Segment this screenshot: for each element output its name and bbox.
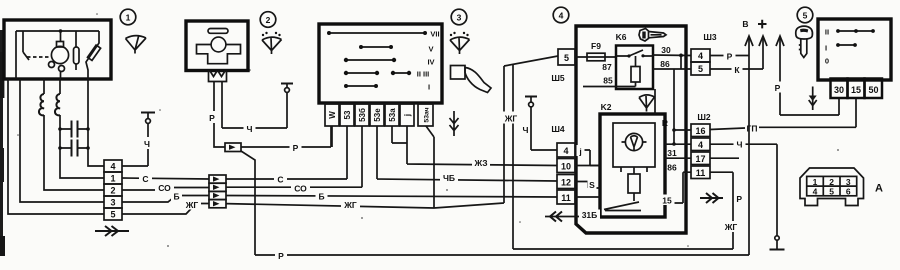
svg-text:1: 1 [110,174,115,184]
arrowhead B [745,36,753,46]
circled 4 designator [553,7,569,23]
label S left [139,173,152,184]
svg-text:V: V [428,45,433,54]
label ZhG vertical pair [502,112,521,124]
switch terminal 53b [355,104,369,126]
svg-text:F9: F9 [591,41,601,51]
wire P Sh3-4 to B arrow [710,55,749,57]
svg-text:12: 12 [561,177,571,187]
label j [577,145,585,156]
svg-text:5: 5 [110,210,115,220]
wire P bullet down branch [241,151,255,255]
washer lever icon [451,66,466,80]
svg-text:4: 4 [559,11,564,21]
connector Sh4 pin 12 [557,175,575,189]
wire P ignition 30 [780,38,839,115]
switch terminal W [325,104,339,126]
svg-text:ЖГ: ЖГ [504,114,518,124]
body terminal symbol [141,112,155,114]
node 30 [679,54,683,58]
harness continuation arrow right lower [700,193,723,203]
wire to Sh2-16 [674,129,691,131]
svg-text:2: 2 [266,15,271,25]
svg-text:II III: II III [417,70,430,79]
svg-text:0: 0 [825,57,829,66]
circled 1 designator [120,9,136,25]
svg-text:Ч: Ч [144,139,150,149]
switch terminal 53e [370,104,384,126]
label P bottom [275,250,287,261]
svg-text:1: 1 [126,13,131,23]
label P to W [290,142,302,153]
connector Sh2 pin 4 [691,138,710,151]
svg-text:Ш2: Ш2 [697,112,711,122]
wire S Sh4-12 to K2 [575,182,600,189]
svg-text:K2: K2 [601,102,612,112]
commutator stubs [75,31,77,70]
svg-text:85: 85 [603,76,613,86]
svg-text:СО: СО [158,183,171,193]
ignition terminal 15 [848,79,865,99]
svg-text:I: I [825,44,827,53]
label CO mid [291,182,310,193]
relay K6 coil [631,67,640,83]
wire Sh5 to K6 [576,56,616,58]
terminal symbol Ch feed [525,96,537,98]
wire j Sh4-4 to K2 [575,150,600,166]
svg-text:Р: Р [278,251,284,261]
choke coil L2 wire to pin1 [60,79,104,178]
wire Ch to Sh4-4 [531,97,557,151]
relay K2 motor circle [625,133,642,150]
connector A grid [807,176,857,195]
connector Sh2 pin 11 [691,166,710,179]
key icon in block [639,29,649,42]
wire CO cell2 to 53b [226,126,362,187]
svg-text:ЖГ: ЖГ [724,222,738,232]
svg-text:ЖЗ: ЖЗ [473,158,487,168]
svg-text:Р: Р [727,52,733,62]
commutator capsule [74,47,80,64]
relay K2 box [600,114,665,217]
node 31 [672,142,676,146]
svg-text:4: 4 [563,146,568,156]
svg-text:ЧБ: ЧБ [443,173,455,183]
svg-text:87: 87 [602,62,612,72]
connector Sh5 pin 5 [558,49,575,65]
choke coil L1 wire to pin2 [44,79,104,190]
svg-text:50: 50 [868,85,878,95]
connector Sh4 pin 11 [557,190,575,204]
wire P bullet to switch W [241,126,331,147]
ignition contact row 2 [838,44,855,46]
svg-text:S: S [589,180,595,190]
svg-text:31: 31 [667,148,677,158]
connector Sh2 pin 17 [691,152,710,165]
capacitor C2 leads [60,147,88,149]
connector Sh3 pin 5 [691,62,710,75]
label P ignition [772,82,783,93]
relay K2 coil [633,167,635,174]
svg-text:Ч: Ч [247,124,253,134]
node motor supply [59,29,63,33]
svg-text:Ш3: Ш3 [703,32,717,42]
svg-text:31Б: 31Б [582,210,598,220]
motor connector pin 1 [104,172,122,184]
motor terminal tab [57,42,64,48]
wire Ch Sh2-4 to ground [710,144,777,236]
wire Ch to body terminal [122,165,148,167]
washer pump motor circle [211,37,226,52]
svg-text:Р: Р [775,83,781,93]
wire motor to pin5 [8,79,104,214]
svg-text:j: j [403,114,412,117]
capacitor C2 plates [72,140,78,157]
ignition contact row 1 [838,30,873,32]
svg-text:Р: Р [209,113,215,123]
label Ch right [734,138,746,149]
circled 5 designator [797,7,813,23]
svg-text:С: С [277,175,283,185]
relay K2 inner stubs [621,167,647,172]
svg-text:ЖГ: ЖГ [343,200,357,210]
capacitor C1 leads [60,128,88,130]
svg-text:53б: 53б [358,108,367,122]
harness continuation arrow down right [812,87,814,111]
svg-text:5: 5 [698,64,703,74]
wire bus P right riser to B arrow [748,38,750,255]
svg-text:5: 5 [564,53,569,63]
svg-text:5: 5 [829,186,834,196]
motor brush bottom [59,66,65,72]
switch row V [361,46,391,48]
washer pump coupling teeth [209,71,227,82]
svg-text:86: 86 [660,59,670,69]
label P pump [207,111,218,123]
svg-text:Б: Б [318,192,324,202]
wire 31B with left arrow [545,216,600,218]
label ZhZ [472,157,490,168]
svg-text:Ш4: Ш4 [551,124,565,134]
switch row I [346,85,376,87]
svg-text:3: 3 [457,13,462,23]
wire Sh4-11 to K2 [575,196,600,198]
switch terminal j [400,104,414,126]
svg-text:К: К [734,65,740,75]
switch row VII [329,32,425,34]
motor M1 internal top bus [16,30,99,32]
svg-text:Ч: Ч [737,140,743,150]
circled 3 designator [451,9,467,25]
motor connector pin 5 [104,208,122,220]
svg-text:53ач: 53ач [423,107,430,122]
wire P pump to bullet [214,82,225,148]
svg-text:11: 11 [561,193,571,203]
svg-text:Р: Р [736,194,742,204]
paper speckles [17,13,839,247]
wire C cell1 to 53 [226,126,347,179]
svg-text:IV: IV [427,58,434,67]
wiper motor unit 1 box [4,20,111,79]
svg-text:В: В [742,19,748,29]
wire ZhG second drop [513,64,733,249]
svg-text:K6: K6 [616,32,627,42]
switch actuation dashed link [27,56,51,58]
wire 85 [583,82,636,87]
motor connector pin 3 [104,196,122,208]
relay K6 box [616,46,653,90]
switch terminal 53a [385,104,399,126]
label Ch pump [244,123,256,134]
switch terminal 53 [340,104,354,126]
inline connector cell 4 [209,200,226,208]
label Ch motor [142,137,153,149]
label K [732,64,743,75]
washer wiper icon 2 [262,37,282,54]
label ZhG right [722,221,741,232]
svg-text:30: 30 [834,85,844,95]
svg-text:53а: 53а [388,108,397,122]
terminal symbol plus feed [281,83,293,85]
choke coil L1 [39,94,44,115]
label SO left [155,182,174,193]
ground symbol [776,240,778,248]
arrowhead plus [759,36,767,46]
svg-text:W: W [328,111,337,119]
svg-text:15: 15 [851,85,861,95]
svg-text:ГП: ГП [747,124,758,134]
svg-text:Ч: Ч [523,125,529,135]
wire ChB 53e to Sh4-12 [377,126,557,181]
node cap junctions [58,127,62,131]
connector A outline [800,168,864,206]
svg-text:ЖГ: ЖГ [185,200,199,210]
wiper switch 3 box [319,24,442,103]
wire 86 to Sh2-17 [665,157,691,159]
washer wiper icon 3 [450,37,470,54]
wire 53 down [331,126,333,147]
wire Sh2-17 stub [710,157,739,159]
switch row IV [346,59,394,61]
mounting block 4 outline [576,26,686,233]
circled 2 designator [260,12,276,28]
resistor lead [86,31,99,79]
svg-text:Б: Б [173,192,179,202]
plus symbol [758,20,767,29]
label B left [171,190,182,201]
svg-text:6: 6 [846,186,851,196]
svg-text:VII: VII [430,30,439,39]
capacitor C1 plates [72,121,78,138]
wire resistor to pin4 [88,79,104,166]
wire B row3 [122,196,209,203]
harness continuation arrow right [95,226,129,236]
wire K6 to K2 link [654,89,656,114]
label 31B [579,210,600,221]
label 15 [660,195,675,206]
svg-text:С: С [142,174,148,184]
wire motor to pin3 [20,79,104,202]
svg-text:15: 15 [662,196,672,206]
svg-text:86: 86 [667,163,677,173]
wire ZhZ j to Sh4-10 [407,126,557,166]
key icon 5 [796,26,813,39]
wire 53a drop and bridge [392,126,407,143]
svg-text:A: A [875,183,883,195]
inline connector cell 1 [209,175,226,183]
connector Sh4 pin 4 [557,143,575,157]
svg-text:Ш5: Ш5 [551,73,565,83]
svg-text:10: 10 [561,161,571,171]
connector Sh3 pin 4 [691,49,710,62]
svg-text:4: 4 [110,162,115,172]
connector Sh2 pin 16 [691,124,710,137]
svg-text:R: R [662,118,668,128]
ignition terminal 50 [865,79,883,99]
scan edge artifact left [0,30,3,256]
motor connector pin 2 [104,184,122,196]
ignition switch 5 box [818,19,891,80]
wire 15 to Sh2-11 [665,172,691,203]
wire SO row2 [122,188,209,191]
inline connector cell 3 [209,191,226,199]
thermal switch contact [23,52,29,60]
wiper icon 1 [126,36,147,54]
wire B cell3 to Sh4-11 [226,196,557,198]
svg-text:11: 11 [696,168,706,178]
label P right [724,50,736,61]
svg-text:4: 4 [813,186,818,196]
label C mid [274,173,287,184]
wire 30 to 86 link [680,55,682,69]
svg-text:30: 30 [661,45,671,55]
svg-text:5: 5 [803,11,808,21]
svg-text:53: 53 [343,110,352,119]
relay K2 inner body [613,123,655,167]
motor connector pin 4 [104,160,122,172]
wire Sh4-10 to K2 [575,165,600,167]
node R to 16 [672,128,676,132]
fuse F9 [587,53,605,61]
washer pump top bar [208,29,228,34]
harness continuation arrow down mid [450,111,459,136]
label S [588,180,597,190]
wire GP Sh2-16 to ignition 15 [710,98,856,130]
wiper icon in block [639,95,655,112]
motor armature M1 [51,46,68,63]
svg-text:4: 4 [698,140,703,150]
wire 31 to Sh2-4 [665,143,691,145]
label ZhG mid [341,199,360,210]
switch terminal 53ach [418,104,433,126]
switch row II III [346,72,409,74]
label ZhG left [183,199,201,210]
wire Ch pump to terminal [222,82,287,129]
wire 53ach diagonal drop [426,126,434,208]
wire R vertical [673,69,675,144]
wire ZhG row5 [122,204,209,215]
motor brush left [49,62,55,68]
wire K Sh3-5 to plus arrow [710,38,763,69]
label B mid [316,190,328,201]
wire P bottom bus [255,254,749,256]
svg-text:I: I [428,83,430,92]
inline connector cell 2 [209,183,226,191]
svg-text:53е: 53е [373,108,382,122]
washer pump cross bracket [197,45,241,64]
svg-text:СО: СО [294,184,307,194]
wire ZhG cell4 long [226,56,558,208]
svg-text:Р: Р [293,143,299,153]
wire S row1 [122,178,209,179]
resistor body [87,45,100,60]
ignition terminal 30 [831,79,848,99]
wire 30 to Sh3-4 [653,54,691,57]
choke coil L2 [55,94,60,115]
relay K6 contact [616,50,653,56]
relay K2 contact [604,202,641,211]
wire 86 to Sh3-5 [653,68,691,70]
svg-text:16: 16 [695,126,705,136]
label ChB [440,172,458,183]
svg-text:3: 3 [110,198,115,208]
wire motor supply drop [60,31,62,79]
svg-text:j: j [578,147,581,157]
ground connection circle [775,236,779,240]
bullet connector [225,143,241,152]
svg-text:17: 17 [695,154,705,164]
washer pump 2 box [186,21,248,71]
arrowhead P ignition [776,36,784,46]
motor M1 internal left wire [16,31,23,79]
svg-text:2: 2 [110,186,115,196]
connector Sh4 pin 10 [557,159,575,173]
svg-text:4: 4 [698,51,703,61]
svg-text:II: II [825,28,829,37]
